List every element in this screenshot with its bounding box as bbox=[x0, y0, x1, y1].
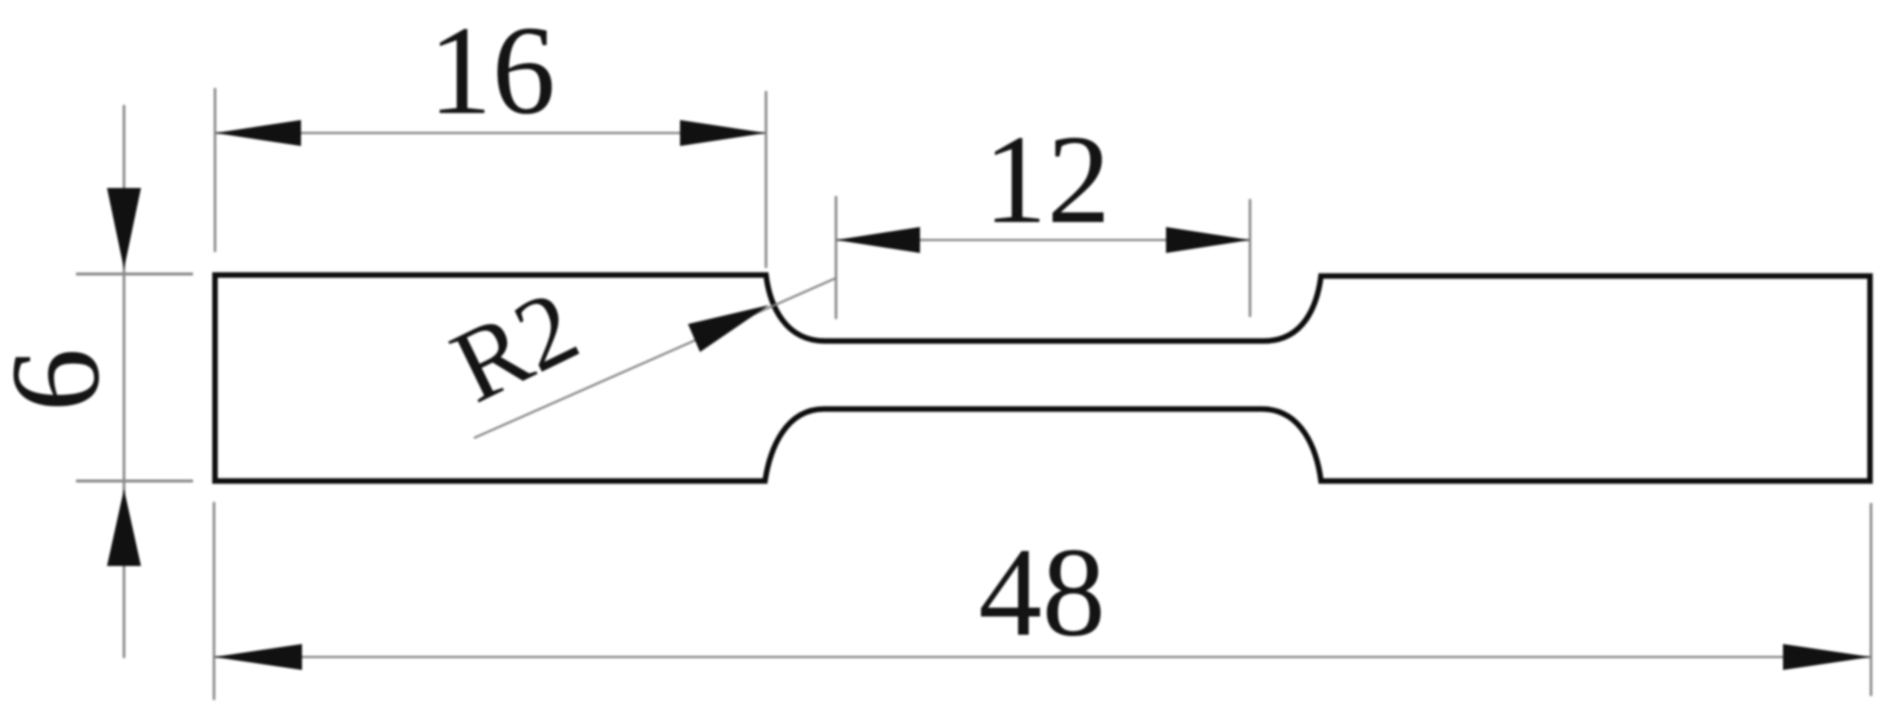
dimension 12: right arrow bbox=[1166, 227, 1250, 253]
dimension 6: bottom tick (extension of specimen bottom edge) bbox=[76, 480, 193, 483]
dimension 6: top tick (extension of specimen top edge) bbox=[76, 273, 193, 276]
dimension 48: left extension line bbox=[213, 502, 216, 700]
radius leader arrowhead bbox=[688, 305, 769, 352]
svg-text:R2: R2 bbox=[435, 268, 595, 425]
svg-text:6: 6 bbox=[0, 348, 126, 412]
dimension 16: left arrow bbox=[215, 120, 301, 146]
dimension 12: right extension line bbox=[1249, 199, 1252, 317]
dimension 12: left arrow bbox=[836, 227, 920, 253]
dimension 16: right arrow bbox=[680, 120, 766, 146]
dimension 48: right arrow bbox=[1783, 644, 1871, 670]
dimension 48: right extension line bbox=[1870, 503, 1873, 696]
dimension 48: dimension line bbox=[214, 656, 1871, 658]
svg-text:16: 16 bbox=[429, 1, 556, 141]
dimension 48: left arrow bbox=[214, 644, 302, 670]
specimen outline (dog-bone tensile specimen) bbox=[215, 275, 1870, 481]
radius leader line R2 bbox=[474, 278, 836, 438]
dimension 6: vertical dimension line bbox=[123, 105, 126, 658]
dimension 16: dimension line bbox=[215, 132, 766, 134]
dimension 12: left extension line bbox=[835, 196, 838, 319]
svg-text:48: 48 bbox=[979, 523, 1106, 663]
dimension 6: down arrow bbox=[107, 188, 141, 269]
svg-text:12: 12 bbox=[984, 110, 1111, 250]
dimension 16: right extension line bbox=[765, 91, 768, 268]
dimension 16: left extension line bbox=[214, 88, 217, 252]
dimension 12: dimension line bbox=[836, 239, 1250, 241]
dimension 6: up arrow bbox=[107, 489, 141, 566]
